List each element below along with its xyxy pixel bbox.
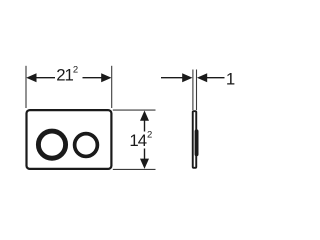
thickness dimension line left segment	[161, 77, 183, 79]
width dimension line left segment	[36, 77, 56, 79]
extension line right (thickness dim)	[196, 70, 198, 111]
width dim arrowhead left	[26, 73, 36, 82]
thickness dim arrowhead pointing left	[197, 73, 207, 82]
left button ring	[38, 131, 65, 158]
height dimension line bottom segment	[144, 149, 146, 161]
thickness dim arrowhead pointing right	[182, 73, 192, 82]
height dim arrowhead up	[140, 111, 149, 121]
extension line bottom (height dim)	[113, 168, 156, 170]
svg-text:21: 21	[56, 66, 73, 85]
width dim arrowhead right	[101, 73, 111, 82]
front plate outline	[27, 110, 112, 169]
height dim arrowhead down	[140, 159, 149, 169]
right button ring	[75, 134, 98, 157]
extension line left (thickness dim)	[192, 70, 194, 111]
height dimension line top segment	[144, 120, 146, 132]
svg-text:2: 2	[73, 65, 78, 76]
svg-text:2: 2	[147, 130, 152, 141]
svg-text:1: 1	[226, 70, 235, 89]
extension line top (height dim)	[113, 109, 156, 111]
svg-text:14: 14	[129, 131, 146, 150]
extension line right (width dim)	[111, 66, 113, 108]
thickness dimension line right segment	[207, 77, 225, 79]
side view plate outline	[193, 111, 197, 168]
side view button protrusion	[195, 129, 199, 156]
width dimension line right segment	[83, 77, 103, 79]
extension line left (width dim)	[25, 66, 27, 108]
